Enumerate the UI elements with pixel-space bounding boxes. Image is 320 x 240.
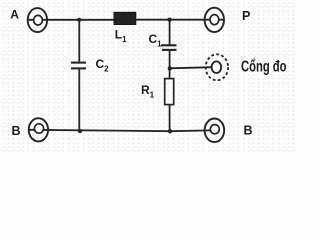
wire bottom rail left [29,130,170,131]
svg-text:R1: R1 [141,83,155,99]
wire top: A terminal to L1 [28,19,114,21]
svg-text:P: P [242,9,250,23]
wire: R1 bottom to bottom rail [169,105,171,132]
wire: C2 vertical lower [78,69,80,130]
node junction top-right (C1 tap) [167,18,171,22]
resistor R1 [165,79,174,105]
terminal P outer circle [205,8,224,32]
svg-text:C1: C1 [149,32,163,48]
node junction measuring tap [168,66,172,70]
wire: C2 vertical upper [78,20,80,62]
terminal A inner circle [34,15,43,25]
terminal B left outer circle [29,118,48,141]
svg-text:C2: C2 [96,57,110,73]
measuring port dashed outer circle [206,54,228,80]
node junction bottom (C2 foot) [78,129,82,133]
capacitor C2 [71,63,86,69]
svg-text:B: B [244,124,253,138]
terminal A outer circle [28,8,47,32]
terminal P inner circle [210,15,219,25]
wire top: L1 to P terminal [136,19,225,21]
capacitor C1 [161,45,177,50]
terminal B right outer circle [205,119,225,143]
node junction top-left (C2 tap) [77,18,81,22]
svg-text:L1: L1 [115,28,127,44]
svg-text:Cổng đo: Cổng đo [241,58,287,76]
inductor L1 [114,12,136,24]
measuring port inner circle [212,61,222,73]
wire: C1 vertical upper [169,20,171,45]
svg-text:A: A [10,8,19,22]
wire bottom rail right [170,129,211,132]
wire: C1 bottom to R1 top [169,51,171,79]
terminal B right inner circle [210,125,219,134]
svg-text:B: B [12,124,21,138]
terminal B left inner circle [34,124,43,133]
node junction bottom (R1 foot) [168,129,172,133]
wire: tap to measuring port [170,67,212,68]
